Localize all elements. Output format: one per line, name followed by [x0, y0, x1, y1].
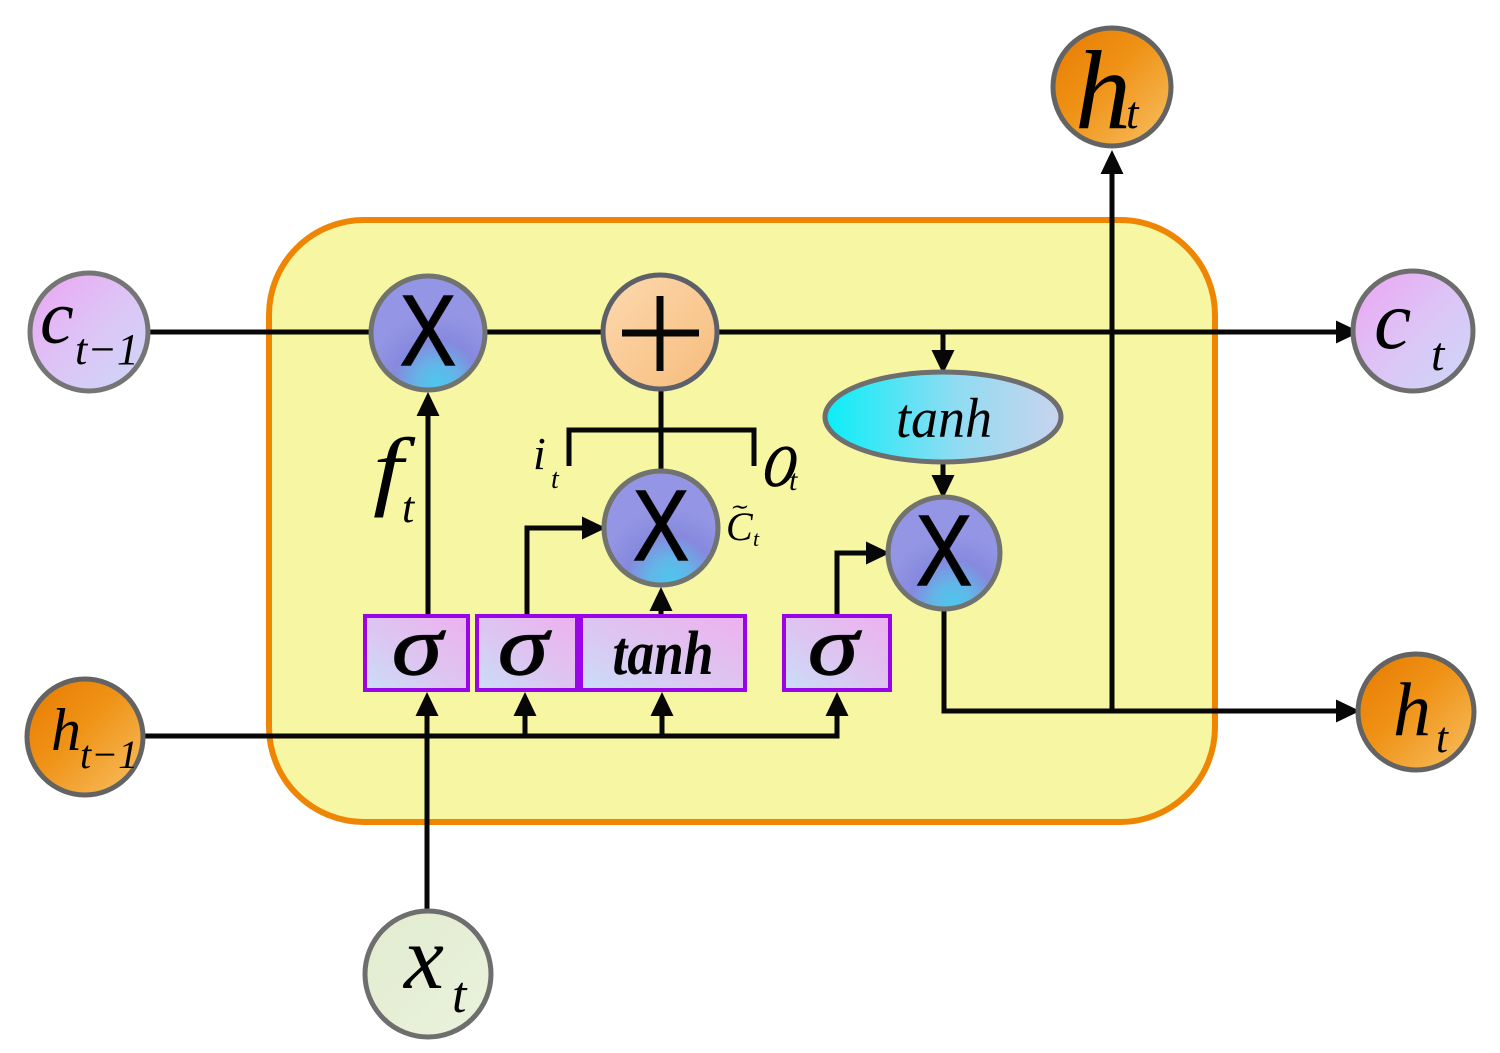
wire: h_{t-1} horizontal and riser to sigma4 [142, 700, 837, 736]
sigma box 4 [784, 616, 890, 690]
svg-text:σ: σ [392, 600, 446, 693]
arrowhead f_t into X1 [417, 392, 440, 416]
svg-text:σ: σ [808, 600, 862, 693]
add node [603, 275, 717, 389]
arrowhead sigma2 to X2 [582, 517, 606, 540]
svg-text:X: X [633, 470, 689, 582]
svg-text:c: c [40, 276, 74, 360]
wire: i/o bracket crossbar [569, 430, 754, 466]
arrowhead tanh to X3 [932, 475, 955, 499]
svg-text:t: t [452, 967, 468, 1024]
multiply node X1 [371, 276, 485, 390]
arrowhead into sigma4 bottom [826, 692, 849, 716]
wire: branch riser to tanh box [660, 700, 665, 736]
svg-text:∼: ∼ [729, 494, 748, 519]
node x_t [365, 911, 491, 1037]
node h_t top [1053, 28, 1171, 146]
arrowhead into tanh-box bottom [651, 692, 674, 716]
node c_t [1353, 271, 1473, 391]
arrowhead into tanh ellipse [932, 350, 955, 374]
svg-text:X: X [916, 495, 972, 607]
svg-text:tanh: tanh [896, 388, 992, 450]
arrowhead into h_t top [1101, 150, 1124, 174]
arrowhead into c_t [1336, 321, 1360, 344]
wire: c_{t-1} to c_t main horizontal line [148, 330, 1340, 335]
node c_{t-1} [30, 273, 148, 391]
sigma box 2 [477, 616, 577, 690]
multiply node X3 [888, 497, 1000, 609]
wire: riser up to h_t top [1110, 164, 1115, 711]
wire: tanh ellipse to X3 [941, 462, 946, 478]
node h_t right [1358, 654, 1474, 770]
wire: X3 output down, right to h_t right [944, 609, 1340, 711]
tanh ellipse [825, 372, 1061, 462]
svg-text:h: h [51, 697, 81, 763]
svg-text:x: x [402, 909, 444, 1008]
svg-text:t: t [1436, 715, 1449, 762]
arrowhead into h_t right [1336, 700, 1360, 723]
wire: tanh-box to X2 riser [659, 592, 664, 616]
arrowhead into X2 from tanh-box [650, 587, 673, 611]
wire: sigma2 elbow to X2 [527, 528, 584, 616]
svg-text:c: c [1374, 274, 1411, 367]
tanh box [581, 616, 745, 690]
wire: sigma4 elbow to X3 [837, 553, 866, 616]
LSTM cell body (rounded yellow box) [269, 220, 1215, 822]
node h_{t-1} [27, 679, 143, 795]
arrowhead into sigma1 bottom [416, 692, 439, 716]
svg-text:t: t [753, 526, 760, 551]
arrowhead sigma4 to X3 [866, 542, 890, 565]
svg-text:tanh: tanh [613, 620, 714, 688]
wire: f_t riser from sigma1 to X1 [426, 402, 431, 616]
sigma box 1 [365, 616, 468, 690]
wire: branch riser to sigma2 [523, 700, 528, 736]
svg-text:h: h [1075, 29, 1131, 153]
wire: x_t up through h-line into sigma1 [425, 700, 430, 911]
svg-text:t−1: t−1 [75, 325, 139, 374]
svg-text:X: X [400, 275, 456, 387]
svg-text:i: i [533, 428, 546, 479]
svg-text:t: t [402, 483, 416, 532]
svg-text:t: t [789, 464, 798, 497]
arrowhead into sigma2 bottom [514, 692, 537, 716]
multiply node X2 [604, 471, 718, 585]
wire: plus down to X2 [659, 390, 664, 470]
svg-text:t: t [551, 464, 560, 495]
svg-text:t: t [1431, 328, 1446, 381]
svg-text:t−1: t−1 [80, 732, 138, 777]
svg-text:h: h [1393, 668, 1431, 752]
svg-text:σ: σ [498, 600, 552, 693]
wire: c-line drop into tanh ellipse [941, 334, 946, 352]
svg-text:t: t [1126, 88, 1140, 138]
label o_t [758, 412, 805, 505]
